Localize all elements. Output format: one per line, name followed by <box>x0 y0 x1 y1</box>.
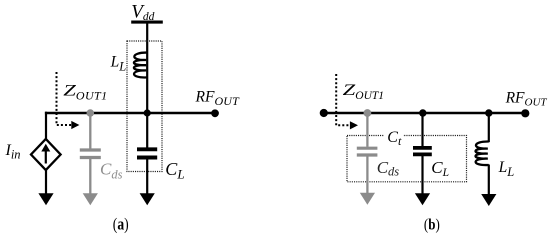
capacitor C_L (b) <box>413 148 432 155</box>
capacitor C_ds (a) <box>80 150 101 158</box>
wire rail corner down to current source <box>45 112 47 140</box>
ground arrow under CL (b) <box>415 193 430 205</box>
output rail wire (a) <box>45 112 215 115</box>
dotted box around LL and CL (a) <box>127 41 162 172</box>
gray wire Cds to ground (b) <box>366 157 368 196</box>
node dot LL (b) <box>485 109 492 116</box>
inductor L_L (a) <box>134 53 147 78</box>
node dot gray (b) <box>364 109 372 117</box>
wire Vdd to rail (a) <box>146 22 148 113</box>
gray ground arrow (b) <box>360 193 375 205</box>
wire CL to ground (a) <box>146 159 148 196</box>
wire CL to ground (b) <box>421 156 423 196</box>
left terminal dot (b) <box>320 109 328 117</box>
wire node to LL (b) <box>488 113 490 142</box>
ground arrow under CL (a) <box>140 193 155 205</box>
node dot black (a) <box>144 109 151 116</box>
wire node to CL (b) <box>421 113 423 146</box>
Z_OUT1 probe dotted line (b) <box>336 74 350 125</box>
ground arrow under current source <box>38 193 53 205</box>
inductor L_L (b) <box>475 141 488 165</box>
Z_OUT1 probe dotted line (a) <box>57 72 72 125</box>
gap mask for Ct label <box>384 133 404 138</box>
capacitor C_L (a) <box>137 149 157 157</box>
ground arrow under LL (b) <box>481 194 496 206</box>
svg-text:(b): (b) <box>424 216 440 233</box>
node dot gray (a) <box>87 109 95 117</box>
node dot CL (b) <box>419 109 426 116</box>
svg-text:(a): (a) <box>113 214 129 233</box>
gray wire node to Cds (b) <box>366 113 368 147</box>
wire current source to ground <box>45 170 47 196</box>
gray ground arrow (a) <box>83 193 98 205</box>
gray wire Cds to ground (a) <box>89 159 91 196</box>
output rail wire (b) <box>324 112 526 115</box>
Z_OUT1 probe arrowhead (a) <box>71 121 79 129</box>
Z_OUT1 probe arrowhead (b) <box>350 121 358 129</box>
current source I_in <box>31 139 61 170</box>
gray wire node to Cds (a) <box>89 113 91 149</box>
wire LL to ground (b) <box>488 165 490 197</box>
capacitor C_ds (b) <box>357 148 378 155</box>
RF_OUT terminal dot (a) <box>211 109 219 117</box>
RF_OUT terminal dot (b) <box>521 109 529 117</box>
wire node to CL (a) <box>146 113 148 148</box>
Vdd supply bar <box>131 21 163 24</box>
dotted box C_t (b) <box>347 136 467 182</box>
